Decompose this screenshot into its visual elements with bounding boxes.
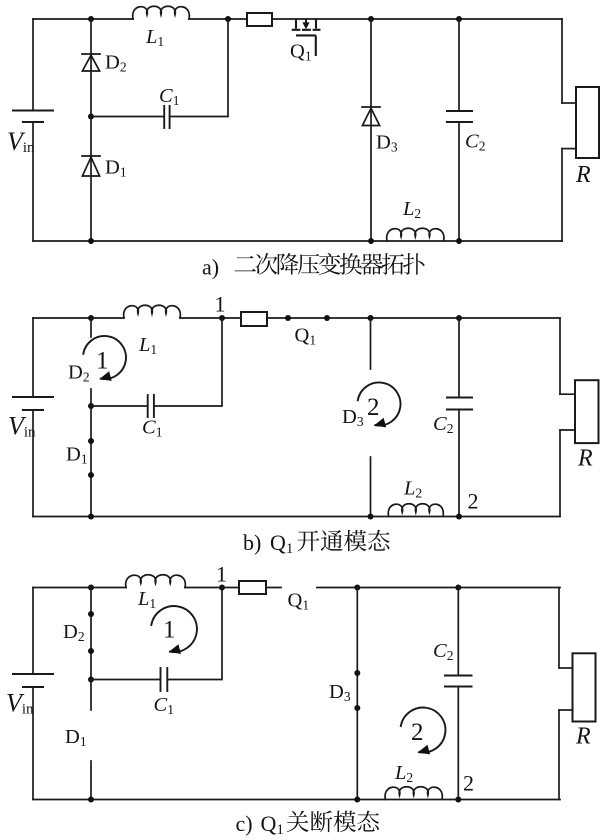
svg-text:D2: D2 <box>68 362 90 385</box>
junction dot C2 top (panel b) <box>456 315 462 321</box>
junction dot bottom of D1 branch (panel c) <box>88 797 94 803</box>
svg-text:C1: C1 <box>142 417 162 440</box>
wire: panel b C2 branch upper <box>458 318 460 398</box>
battery Vin (panel b) <box>13 397 53 410</box>
diode D3 (panel a) <box>362 106 380 108</box>
svg-text:b): b) <box>243 530 261 555</box>
wire: panel c C2 branch upper <box>457 588 459 676</box>
capacitor C1 (panel b) <box>148 395 154 417</box>
wire: panel a load bottom stub <box>562 148 576 150</box>
transistor Q1 MOSFET symbol (panel a) <box>292 19 321 56</box>
wire: panel a right rail lower <box>561 149 563 241</box>
wire: panel a left rail lower <box>32 122 34 241</box>
wire: panel a top rail, fuse to right rail (through Q1) <box>272 18 562 20</box>
svg-text:L1: L1 <box>145 26 164 49</box>
resistor R load box (panel a) <box>576 87 599 158</box>
junction dot node 2 (panel c) <box>455 797 461 803</box>
junction dot Q1 source (panel b) <box>285 315 291 321</box>
svg-text:2: 2 <box>411 719 424 746</box>
current loop 2 arrow (panel b) <box>358 383 401 426</box>
svg-text:L2: L2 <box>394 762 413 785</box>
svg-text:C2: C2 <box>465 131 485 154</box>
junction dot D3 top (panel c) <box>354 585 360 591</box>
svg-text:D3: D3 <box>376 132 398 155</box>
junction dot D2 top (panel b) <box>88 315 94 321</box>
wire: panel b D2 branch lower stub <box>90 389 92 406</box>
svg-text:1: 1 <box>216 562 227 587</box>
wire: panel a left rail upper <box>32 19 34 111</box>
wire: panel c right rail lower <box>558 710 560 800</box>
svg-text:D1: D1 <box>105 157 127 180</box>
wire: panel a top rail left segment <box>33 18 133 20</box>
wire: panel c right rail upper <box>558 588 560 669</box>
fuse element in series with Q1 (panel a) <box>247 13 272 26</box>
capacitor C1 (panel a) <box>164 106 169 128</box>
wire: panel b D2 branch upper stub (diode off) <box>90 318 92 337</box>
junction dot D2 anode (panel c) <box>88 648 94 654</box>
junction dot C1 left node (panel b) <box>88 403 94 409</box>
wire: panel a right rail upper <box>561 19 563 103</box>
wire: panel b C1 branch right + riser to node 1 <box>154 318 222 406</box>
svg-text:L2: L2 <box>402 198 421 221</box>
junction dot D1 anode (panel b) <box>88 438 94 444</box>
svg-text:L2: L2 <box>403 478 422 501</box>
junction dot D3 bottom (panel c) <box>354 797 360 803</box>
junction dot D1 cathode (panel b) <box>88 472 94 478</box>
wire: panel b left rail lower <box>32 410 34 517</box>
svg-text:Q1: Q1 <box>261 811 284 838</box>
wire: panel a diode branch x=91 lower (D1) <box>90 117 92 242</box>
wire: panel b load bottom stub <box>560 429 575 431</box>
junction dot D2 top (panel c) <box>88 585 94 591</box>
wire: panel c bottom rail <box>33 799 560 801</box>
wire: panel c top rail L1 to fuse <box>185 587 239 589</box>
svg-text:R: R <box>575 162 591 188</box>
resistor R load box (panel b) <box>575 380 599 443</box>
resistor R load box (panel c) <box>573 653 596 721</box>
svg-text:R: R <box>575 724 591 750</box>
inductor L2 (panel c) <box>385 787 442 800</box>
svg-text:C1: C1 <box>159 85 179 108</box>
capacitor C1 (panel c) <box>161 668 168 691</box>
wire: panel b top rail L1 to fuse <box>180 317 241 319</box>
wire: panel b D3 branch lower stub <box>370 457 372 517</box>
junction dot Q1 drain (panel b) <box>324 315 330 321</box>
svg-text:D1: D1 <box>65 726 87 749</box>
junction dot bottom of D1 branch (panel b) <box>88 514 94 520</box>
wire: panel b D1 branch (diode on) <box>90 406 92 517</box>
junction dot node 2 (panel b) <box>456 514 462 520</box>
wire: panel c top rail after Q1 gap <box>317 587 560 589</box>
wire: panel a C2 branch lower <box>458 122 460 241</box>
svg-text:Vin: Vin <box>7 127 35 156</box>
svg-text:D3: D3 <box>342 406 364 429</box>
svg-text:1: 1 <box>215 292 226 317</box>
wire: panel c left rail lower <box>32 687 34 800</box>
junction dot node 1 (panel b) <box>219 315 225 321</box>
wire: panel c C2 branch lower <box>457 687 459 800</box>
junction dot node top-left (panel a, D2 top) <box>88 16 94 22</box>
svg-text:L1: L1 <box>138 334 157 357</box>
wire: panel a load top stub <box>562 102 576 104</box>
wire: panel b load top stub <box>560 393 575 395</box>
svg-text:Q1: Q1 <box>295 325 317 348</box>
wire: panel c C1 branch right + riser to node 1 <box>167 588 222 680</box>
diode D1 (panel a) <box>82 155 100 157</box>
wire: panel b right rail lower <box>559 430 561 517</box>
svg-text:Q1: Q1 <box>290 41 312 64</box>
wire: panel a C1 branch left <box>91 116 164 118</box>
wire: panel b top rail fuse to right rail (Q1 on, conducting) <box>267 317 560 319</box>
inductor L1 (panel c) <box>126 575 186 588</box>
wire: panel b bottom rail <box>33 516 560 518</box>
wire: panel a D3 branch <box>370 19 372 241</box>
svg-text:L1: L1 <box>137 588 156 611</box>
wire: panel c left rail upper <box>32 588 34 675</box>
fuse element (panel c) <box>239 581 266 594</box>
wire: panel c top rail left <box>33 587 126 589</box>
current loop 1 arrow (panel b) <box>83 336 126 379</box>
wire: panel b left rail upper <box>32 318 34 397</box>
svg-text:1: 1 <box>96 348 109 375</box>
junction dot D2 cathode (panel c) <box>88 611 94 617</box>
junction dot D3 cathode (panel c) <box>354 670 360 676</box>
svg-text:2: 2 <box>468 489 479 514</box>
battery Vin (panel c) <box>13 674 53 687</box>
wire: panel b top rail left <box>33 317 124 319</box>
current loop 1 arrow (panel c) <box>151 606 197 652</box>
inductor L2 (panel b) <box>388 504 443 517</box>
svg-text:2: 2 <box>367 394 380 421</box>
svg-text:1: 1 <box>163 617 176 644</box>
svg-text:C2: C2 <box>433 413 453 436</box>
wire: panel b C2 branch lower <box>458 410 460 517</box>
current loop 2 arrow (panel c) <box>401 708 446 753</box>
wire: panel a top rail, L1 to fuse <box>189 18 247 20</box>
wire: panel c D1 branch upper stub (diode off) <box>90 680 92 711</box>
svg-text:2: 2 <box>463 771 474 796</box>
svg-text:Q1: Q1 <box>288 590 310 613</box>
wire: panel c D2 branch (diode on) <box>90 588 92 680</box>
junction dot D3 top (panel b) <box>368 315 374 321</box>
svg-text:C1: C1 <box>154 694 174 717</box>
svg-text:C2: C2 <box>433 640 453 663</box>
wire: panel c load top stub <box>559 667 573 669</box>
capacitor C2 (panel b) <box>447 398 472 410</box>
junction dot node 1 (panel c) <box>219 585 225 591</box>
capacitor C2 (panel a) <box>447 111 472 122</box>
inductor L1 (panel a) <box>133 6 190 19</box>
wire: panel b C1 branch left <box>91 405 148 407</box>
wire: panel c D1 branch lower stub <box>90 761 92 800</box>
svg-text:Q1: Q1 <box>270 530 293 557</box>
svg-text:D2: D2 <box>63 621 85 644</box>
junction dot C2 bottom (panel a) <box>456 238 462 244</box>
wire: panel a diode branch x=91 upper (D2) <box>90 19 92 117</box>
wire: panel a C2 branch upper <box>458 19 460 111</box>
svg-text:Vin: Vin <box>8 412 36 441</box>
svg-text:c): c) <box>236 811 253 836</box>
wire: panel a C1 branch right + riser to top <box>170 19 228 117</box>
diode D2 (panel a) <box>82 53 100 55</box>
wire: panel c Q1 source stub (Q1 off, open) <box>266 587 281 589</box>
junction dot D3 bottom (panel b) <box>368 514 374 520</box>
svg-text:D1: D1 <box>66 444 88 467</box>
svg-text:Vin: Vin <box>6 689 34 718</box>
junction dot C2 top (panel a) <box>456 16 462 22</box>
svg-text:R: R <box>577 446 593 472</box>
junction dot D3 top (panel a) <box>368 16 374 22</box>
wire: panel b right rail upper <box>559 318 561 394</box>
capacitor C2 (panel c) <box>445 676 472 687</box>
junction dot C2 top (panel c) <box>455 585 461 591</box>
svg-text:a): a) <box>202 255 219 280</box>
junction dot C1 left node (panel c) <box>88 677 94 683</box>
junction dot D3 bottom (panel a) <box>368 238 374 244</box>
wire: panel c load bottom stub <box>559 709 573 711</box>
svg-text:D2: D2 <box>105 52 127 75</box>
junction dot bottom of diode branch (panel a) <box>88 238 94 244</box>
wire: panel b D3 branch upper stub (diode off) <box>370 318 372 369</box>
junction dot D3 anode (panel c) <box>354 705 360 711</box>
inductor L2 (panel a) <box>387 228 444 241</box>
fuse element (panel b) <box>241 312 267 326</box>
wire: panel c C1 branch left <box>91 679 161 681</box>
wire: panel a bottom rail <box>33 240 562 242</box>
junction dot C1 left node (panel a) <box>88 114 94 120</box>
svg-text:D3: D3 <box>329 681 351 704</box>
wire: panel c D3 branch (diode on) <box>356 588 358 800</box>
battery Vin (panel a) <box>13 111 53 123</box>
junction dot after L1 (panel a) <box>225 16 231 22</box>
inductor L1 (panel b) <box>124 305 181 318</box>
